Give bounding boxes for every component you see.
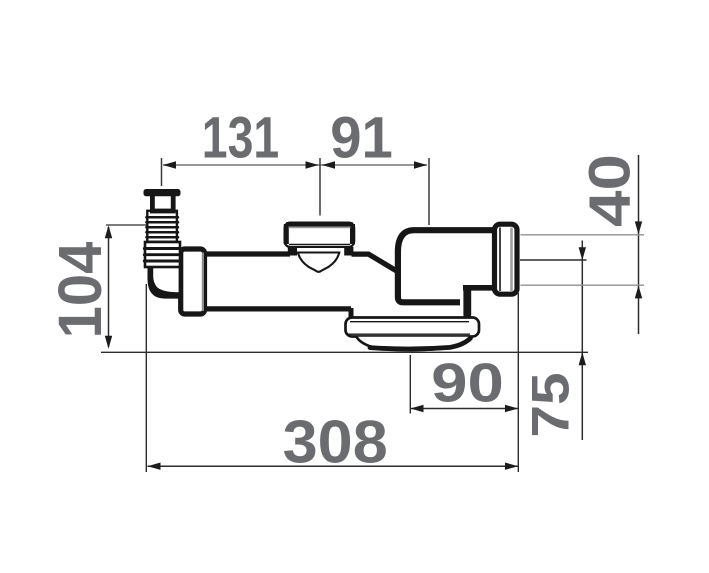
trap right body interior white fill	[401, 233, 492, 300]
extension line 104/75 bottom long	[101, 351, 588, 353]
arrow 75 bottom	[579, 352, 586, 365]
pipe bottom edge	[204, 306, 351, 311]
dim line 90 horizontal	[411, 408, 519, 410]
dim line 75 vertical	[581, 241, 583, 441]
riser left wall and elbow top edge	[398, 230, 493, 302]
extension line 75 top	[520, 259, 587, 261]
extension line 40 bottom	[521, 284, 645, 286]
outlet coupling	[495, 224, 518, 294]
svg-text:104: 104	[46, 242, 115, 339]
bell cup thick bottom	[370, 338, 470, 349]
extension line 90 left	[409, 355, 411, 414]
arrow 40 top	[635, 221, 642, 234]
svg-text:90: 90	[431, 351, 504, 413]
inlet elbow interior	[153, 264, 178, 292]
arrow 90 right	[505, 405, 518, 412]
outlet coupling inner grey band	[510, 228, 513, 292]
pipe body interior white fill	[204, 254, 397, 309]
arrow 104 bottom	[105, 336, 112, 349]
arrow 308 right	[505, 463, 518, 470]
funnel cap	[285, 223, 355, 247]
corrugated hose narrow section	[146, 211, 178, 242]
outlet coupling inner line	[499, 228, 501, 292]
svg-text:75: 75	[521, 372, 579, 437]
extension line 40 top	[521, 234, 645, 236]
arrow 104 top	[105, 225, 112, 238]
svg-text:91: 91	[330, 106, 393, 171]
funnel cap left lug	[288, 247, 297, 256]
arrow 91 left	[322, 161, 335, 168]
extension line right of 91	[428, 158, 430, 225]
dim line 308 horizontal	[148, 465, 519, 467]
extension line between 131 and 91	[319, 158, 321, 216]
trap right descending wall	[463, 290, 471, 315]
arrow 40 bottom	[635, 285, 642, 298]
funnel inlet cone	[298, 253, 339, 272]
extension line 308 left	[145, 284, 147, 472]
bell neck interior white fill	[353, 309, 462, 318]
extension line 308/90 right	[517, 293, 519, 472]
pipe top edge left segment	[204, 251, 290, 256]
arrow 75 top	[579, 247, 586, 260]
left coupling nut	[181, 249, 205, 314]
funnel cap inner grey line	[289, 226, 351, 228]
arrow 308 left	[148, 463, 161, 470]
bell cup outline	[357, 337, 472, 350]
step from pipe bottom to bell flange	[349, 308, 354, 318]
bell flange inner line top	[350, 321, 469, 323]
svg-text:131: 131	[202, 106, 279, 171]
extension line 104 top	[106, 224, 147, 226]
inlet neck	[152, 192, 173, 211]
extension line left of 131	[161, 158, 163, 186]
arrow 131 right	[306, 161, 319, 168]
funnel cap right lug	[344, 247, 353, 256]
dim line 131/91 horizontal	[163, 164, 427, 166]
dim line 104 vertical	[108, 227, 110, 347]
svg-text:40: 40	[578, 154, 643, 227]
bell flange inner line bottom	[349, 333, 471, 335]
funnel cap bottom inner line	[289, 243, 350, 245]
inlet elbow black body	[148, 264, 184, 299]
arrow 90 left	[411, 405, 424, 412]
pipe top edge right segment with bend	[352, 254, 398, 271]
arrow 91 right	[414, 161, 427, 168]
dim line 40 vertical	[638, 155, 640, 334]
outlet bottom edge	[463, 285, 494, 291]
corrugated hose wide section	[144, 242, 180, 267]
arrow 131 left	[163, 161, 176, 168]
funnel cap top thick bar	[286, 224, 353, 244]
inlet top flange	[144, 189, 181, 196]
bell flange	[346, 318, 480, 337]
nut inner grey line	[202, 253, 204, 312]
